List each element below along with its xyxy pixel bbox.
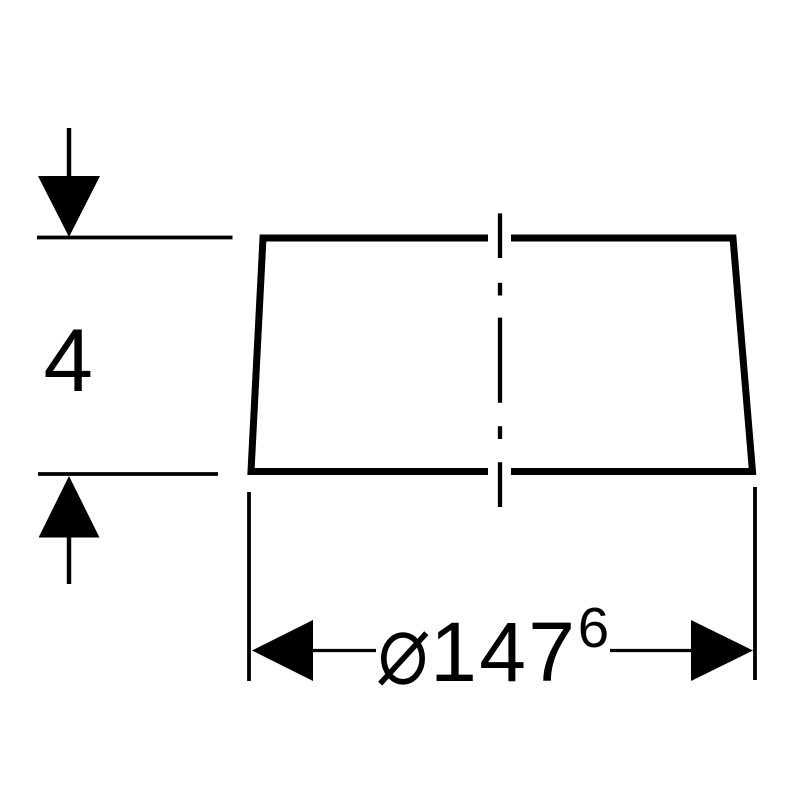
diameter dimension: right arrowhead	[691, 620, 753, 681]
svg-text:147: 147	[430, 605, 575, 699]
height dimension: lower arrow tail	[67, 538, 71, 585]
height dimension: upper extension line	[37, 236, 233, 240]
centerline gap in bottom edge	[488, 460, 511, 482]
diameter dimension: right dimension line segment	[610, 649, 691, 652]
centerline (dash-dot), node axis	[498, 213, 502, 507]
svg-text:4: 4	[44, 310, 94, 410]
height dimension: lower extension line	[38, 472, 218, 476]
height dimension: upper arrowhead (down)	[38, 176, 100, 237]
height dimension: upper arrow tail	[67, 128, 71, 176]
centerline gap in top edge	[488, 227, 511, 248]
diameter symbol (slashed circle)	[380, 633, 426, 683]
height dimension: lower arrowhead (up)	[39, 476, 100, 538]
diameter dimension: left dimension line segment	[313, 649, 376, 652]
diameter dimension: left extension line	[247, 492, 251, 681]
svg-text:6: 6	[578, 596, 609, 659]
part outline (trapezoid)	[251, 238, 753, 472]
diameter dimension: left arrowhead	[252, 620, 313, 681]
diameter dimension: right extension line	[753, 487, 757, 680]
